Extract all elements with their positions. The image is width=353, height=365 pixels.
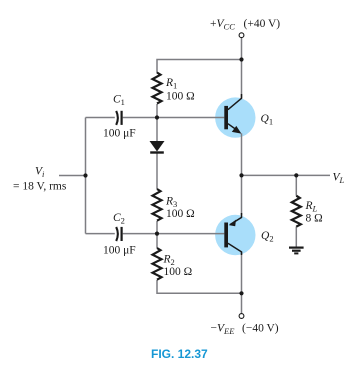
svg-text:= 18 V, rms: = 18 V, rms (13, 181, 67, 193)
wire: Q1 emitter to output rail (241, 133, 243, 175)
node: output junction dot (239, 173, 243, 177)
svg-text:R1: R1 (165, 77, 177, 91)
wire: left input vertical x=85.5 (85, 118, 87, 234)
wire: Q1 collector vertical (241, 60, 243, 99)
svg-text:100 μF: 100 μF (103, 128, 136, 140)
svg-text:100 Ω: 100 Ω (164, 266, 193, 278)
svg-text:100 Ω: 100 Ω (166, 208, 195, 220)
resistor RL (292, 196, 301, 227)
svg-text:RL: RL (305, 200, 318, 214)
transistor Q1 highlight circle (215, 97, 255, 137)
transistor Q2 (224, 213, 241, 255)
transistor Q2 highlight circle (215, 215, 255, 255)
resistor R1 (153, 73, 162, 104)
node: input junction dot (83, 173, 87, 177)
svg-text:100 Ω: 100 Ω (166, 91, 195, 103)
capacitor C1 (116, 111, 121, 125)
svg-text:(+40 V): (+40 V) (244, 18, 281, 30)
wire: upper base line y=117.5 through C1 (86, 117, 115, 119)
svg-text:VL: VL (333, 172, 345, 186)
svg-text:FIG. 12.37: FIG. 12.37 (151, 347, 208, 361)
wire: RL column top (295, 175, 297, 195)
svg-text:Q1: Q1 (261, 113, 274, 127)
svg-text:Vi: Vi (35, 166, 45, 180)
transistor Q1 (224, 94, 241, 134)
svg-text:C1: C1 (113, 94, 125, 108)
svg-text:−VEE: −VEE (211, 323, 236, 337)
wire: left column x=157 vertical segments (156, 104, 158, 141)
wire: lower base line y=233.6 through C2 (86, 233, 115, 235)
wire: top rail from R1 top corner to VCC junction (157, 60, 242, 74)
svg-text:8 Ω: 8 Ω (306, 213, 323, 225)
svg-text:(−40 V): (−40 V) (242, 323, 279, 335)
svg-text:C2: C2 (113, 212, 125, 226)
diode D1 (150, 141, 165, 153)
wire: output rail to VL (242, 174, 331, 176)
node: R3/C2 junction dot (155, 232, 159, 236)
ground (289, 248, 304, 254)
svg-text:R2: R2 (163, 254, 175, 268)
svg-text:+VCC: +VCC (210, 18, 235, 32)
capacitor C2 (116, 227, 121, 241)
node: R1/diode junction dot (155, 115, 159, 119)
node: VEE junction dot (239, 291, 243, 295)
wire: bottom rail (157, 280, 242, 293)
terminal: -VEE open circle (239, 314, 244, 319)
svg-text:Q2: Q2 (261, 230, 274, 244)
wire: RL column bottom to ground (295, 227, 297, 248)
wire: Q2 collector vertical down (241, 252, 243, 293)
terminal: +VCC open circle (239, 33, 244, 38)
wire: input stub from Vi (59, 175, 86, 177)
svg-text:R3: R3 (165, 196, 177, 210)
resistor R2 (153, 248, 162, 280)
wire: Q2 emitter vertical (241, 175, 243, 215)
wire: VEE terminal drop (241, 293, 243, 313)
resistor R3 (153, 189, 162, 221)
node: RL junction dot (294, 173, 298, 177)
svg-text:100 μF: 100 μF (103, 245, 136, 257)
wire: VCC terminal drop (241, 38, 243, 60)
node: VCC junction dot (239, 57, 243, 61)
